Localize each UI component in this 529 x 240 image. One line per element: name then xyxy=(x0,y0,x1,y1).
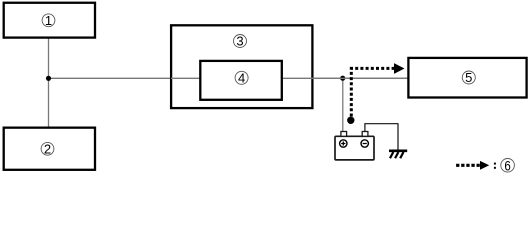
legend circled 6 xyxy=(501,159,515,174)
dotted signal arrow start ball xyxy=(347,117,354,124)
wire xyxy=(365,124,398,150)
svg-text:3: 3 xyxy=(236,34,243,49)
battery body xyxy=(335,136,374,160)
dotted signal arrow head xyxy=(394,63,405,74)
block 4 xyxy=(200,61,281,100)
wire xyxy=(49,77,410,79)
battery minus symbol xyxy=(361,140,368,147)
ground xyxy=(389,151,407,159)
svg-text:6: 6 xyxy=(504,159,510,174)
battery terminal - post xyxy=(362,132,368,137)
wire xyxy=(48,37,50,129)
svg-text:5: 5 xyxy=(465,70,472,85)
junction node A xyxy=(46,76,51,81)
battery plus symbol xyxy=(340,140,347,147)
block 5 xyxy=(408,58,526,98)
block 3 xyxy=(171,25,312,108)
dotted signal arrow path xyxy=(351,68,394,116)
legend colon xyxy=(494,163,496,169)
legend dotted arrow xyxy=(456,161,489,170)
wire xyxy=(342,78,344,132)
junction node B xyxy=(340,76,345,81)
battery terminal + post xyxy=(341,132,347,137)
block 2 xyxy=(4,128,95,170)
svg-text:2: 2 xyxy=(44,141,51,156)
wire xyxy=(171,77,409,79)
svg-text:1: 1 xyxy=(45,13,52,28)
block 1 xyxy=(4,3,95,38)
svg-text:4: 4 xyxy=(238,70,245,85)
